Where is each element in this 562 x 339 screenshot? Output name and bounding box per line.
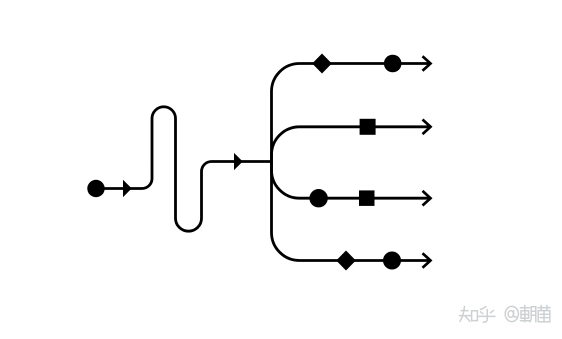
wire branch 1 <box>272 64 431 162</box>
glyph 菌 <box>538 305 550 321</box>
marker circle branch3 <box>309 189 327 207</box>
marker circle branch4 <box>383 252 401 270</box>
marker diamond branch1 <box>312 54 332 74</box>
arrow end branch4 <box>423 253 431 268</box>
arrow end branch2 <box>423 120 431 135</box>
marker circle branch1 <box>384 55 402 73</box>
marker square branch3 <box>359 190 375 206</box>
glyph 朝 <box>520 305 535 321</box>
glyph 乎 <box>479 307 496 323</box>
arrow end branch1 <box>423 56 431 71</box>
watermark "知乎 @朝菌" drawn as vector strokes <box>460 305 551 322</box>
marker square branch2 <box>360 119 376 135</box>
arrowhead mid 2 (junction) <box>234 153 243 170</box>
wire serpentine from start to junction <box>96 107 272 231</box>
glyph @ <box>505 306 518 321</box>
arrow end branch3 <box>423 191 431 206</box>
arrowhead mid 1 <box>123 180 132 197</box>
wire branch 2 <box>272 127 431 162</box>
marker diamond branch4 <box>336 251 356 271</box>
wire branch 4 <box>272 162 431 261</box>
wire branch 3 <box>272 162 431 199</box>
glyph 知 <box>460 307 478 322</box>
node start (filled circle) <box>87 180 104 197</box>
